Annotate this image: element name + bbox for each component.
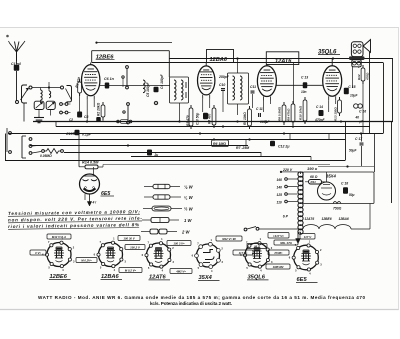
voltage box left of socket 1 [30, 250, 46, 255]
svg-text:12AT6: 12AT6 [275, 58, 292, 64]
svg-text:C 18: C 18 [341, 182, 348, 186]
legend resistor 1/4 W [144, 195, 194, 200]
capacitor C4 [154, 73, 165, 104]
resistor R8 [278, 102, 286, 125]
voltage box socket 5 top [247, 244, 267, 249]
coil L4 [143, 80, 150, 97]
svg-text:C 14: C 14 [316, 105, 323, 109]
wire bus 3 [8, 133, 383, 135]
note handwritten text [8, 209, 143, 229]
svg-text:C 17: C 17 [355, 137, 363, 141]
svg-text:110: 110 [277, 200, 282, 204]
capacitor C2 on bus [69, 117, 132, 123]
voltage box socket 3 top [167, 241, 191, 246]
svg-text:C5 100pF: C5 100pF [146, 81, 150, 97]
svg-text:100,2 V: 100,2 V [130, 245, 141, 249]
capacitor C15 [344, 85, 359, 98]
tube V2 12BA6 [198, 63, 215, 113]
resistor R15 [40, 149, 63, 159]
wire output B+ [383, 63, 385, 134]
tube socket 12AT6 [142, 237, 175, 273]
svg-text:R12: R12 [357, 74, 361, 80]
svg-text:kc/s. Potenza indicativa di us: kc/s. Potenza indicativa di uscita 2 wat… [150, 301, 232, 306]
svg-text:C2: C2 [69, 118, 73, 122]
resistor R13 [334, 97, 342, 121]
svg-text:68 Ω: 68 Ω [310, 175, 318, 179]
wire inter-bus verticals [246, 134, 329, 162]
resistor R4 [208, 105, 216, 128]
svg-text:12AT6: 12AT6 [305, 217, 315, 221]
IF transformer T2 [228, 59, 249, 116]
svg-text:10M≈M2: 10M≈M2 [273, 265, 284, 269]
rectifier box [303, 172, 374, 204]
capacitor C12 [270, 141, 290, 149]
variable capacitor section CV1 [34, 101, 44, 115]
svg-text:C8: C8 [84, 115, 88, 119]
svg-text:R14 0.5M: R14 0.5M [82, 161, 99, 165]
svg-text:1 W: 1 W [184, 218, 192, 223]
ground [34, 116, 44, 123]
label socket 35X4 [198, 275, 220, 281]
antenna coupling bracket left [21, 85, 33, 122]
wire rectifier B+ [392, 59, 394, 122]
svg-text:160: 160 [277, 178, 283, 182]
resistor R2 [97, 102, 105, 122]
svg-text:0.05MΩ: 0.05MΩ [40, 154, 52, 158]
antenna coil L1 [41, 88, 43, 104]
svg-text:117 V: 117 V [304, 235, 313, 239]
svg-text:10n: 10n [301, 90, 307, 94]
svg-text:¼ W: ¼ W [184, 195, 194, 200]
svg-text:M12 V≈0-A: M12 V≈0-A [52, 235, 66, 239]
variable capacitor section CV2 [46, 101, 55, 115]
power transformer primary [280, 168, 303, 235]
resistor R3 [186, 105, 193, 129]
svg-text:R2 20kΩ: R2 20kΩ [97, 102, 101, 116]
resistor R1 [75, 77, 82, 112]
svg-text:750Ω: 750Ω [333, 207, 342, 211]
svg-text:12BE6: 12BE6 [322, 217, 332, 221]
svg-text:6 P: 6 P [283, 214, 289, 218]
output transformer T3 [349, 56, 365, 88]
wire bus 7 [131, 156, 311, 158]
wire V1 plate to IF1 [100, 85, 170, 87]
capacitor C13 coupling [276, 63, 322, 105]
heater string wire [303, 204, 370, 230]
svg-text:470Ω: 470Ω [365, 72, 369, 81]
terminal circles to switch [60, 103, 71, 114]
svg-text:C 15: C 15 [348, 85, 355, 89]
resistor R12 [357, 65, 370, 134]
svg-text:WATT RADIO - Mod. ANIE WR 6. G: WATT RADIO - Mod. ANIE WR 6. Gamma onde … [38, 295, 365, 300]
voltage box socket 1 right [76, 258, 97, 263]
svg-text:R8 0.5MΩ: R8 0.5MΩ [278, 106, 282, 121]
tube V4 35QL6 [323, 59, 342, 113]
voltage box socket 3 bottom [170, 269, 192, 274]
svg-text:0.1μF: 0.1μF [82, 133, 92, 137]
capacitor C18 [341, 182, 355, 198]
resistor R10 [299, 97, 307, 124]
svg-text:125: 125 [277, 193, 283, 197]
voltage box socket 4 top [216, 236, 242, 241]
svg-text:M4L 47Ω: M4L 47Ω [280, 241, 292, 245]
voltage box mains right [300, 234, 315, 240]
svg-text:C10 50p: C10 50p [196, 113, 200, 125]
svg-text:R6 1MΩ: R6 1MΩ [213, 142, 226, 146]
resistor R11 [305, 175, 325, 184]
label 190 ohm [307, 165, 374, 171]
label 6E5 [101, 191, 115, 197]
legend resistor 1/2 W [143, 206, 194, 211]
svg-text:R3 470: R3 470 [186, 115, 190, 126]
svg-text:POM≈: POM≈ [275, 251, 283, 255]
power switch S2 [22, 136, 41, 158]
voltage box mains left [268, 233, 289, 239]
svg-text:C4 100pF: C4 100pF [160, 73, 164, 89]
tube V1 12BE6 [82, 63, 100, 122]
voltage box socket 6 left [268, 250, 289, 255]
wire speaker return [369, 52, 371, 134]
svg-text:C10: C10 [219, 83, 225, 87]
tube socket 6E5 [289, 239, 322, 275]
wire chassis bus 1 [33, 121, 393, 123]
tube socket 12BA6 [94, 237, 127, 273]
screen rail wire [92, 62, 383, 64]
svg-text:100 3 V≈: 100 3 V≈ [173, 241, 185, 245]
legend resistor 1 W [142, 218, 192, 223]
tube 35X4 rectifier [318, 172, 336, 200]
label socket 12BE6 [49, 274, 71, 280]
svg-text:≈117 V≈: ≈117 V≈ [273, 234, 284, 238]
capacitor C14 [314, 105, 326, 122]
legend resistor 2 W [141, 229, 190, 234]
label socket 12AT6 [149, 275, 171, 281]
svg-text:C 16: C 16 [359, 110, 366, 114]
svg-text:R4 470: R4 470 [208, 113, 212, 124]
svg-text:R10 10kΩ: R10 10kΩ [299, 105, 303, 120]
svg-text:100 30 V: 100 30 V [123, 236, 135, 240]
capacitor C17 [349, 134, 364, 167]
svg-text:C11: C11 [250, 85, 256, 89]
svg-text:R5 10kΩ: R5 10kΩ [243, 112, 247, 125]
wire bus 5 [30, 145, 248, 147]
svg-text:12BA6: 12BA6 [339, 217, 349, 221]
svg-text:½ W: ½ W [184, 207, 194, 212]
capacitor C10a [218, 75, 230, 112]
coupling bracket right [61, 86, 72, 102]
label 35QL6 [318, 50, 340, 56]
svg-text:C 13: C 13 [301, 76, 308, 80]
svg-text:4 l: 4 l [92, 201, 97, 205]
voltage box socket 4 right [233, 250, 253, 255]
IF transformer T1 [170, 77, 189, 122]
resistor R7 label [236, 146, 249, 150]
band switch S1a [122, 66, 129, 89]
wire bus 8 bottom [5, 160, 345, 162]
capacitor C11 [250, 85, 256, 108]
junction dots on buses [73, 120, 362, 146]
wire 6E5 cathode arrow [85, 194, 96, 206]
svg-text:220 V: 220 V [282, 168, 293, 172]
label box 12AT6 [266, 52, 299, 65]
svg-text:M12 V≈ 98: M12 V≈ 98 [222, 237, 236, 241]
label box 12BA6 [207, 50, 234, 63]
phono input terminals [7, 128, 11, 153]
svg-text:190 u: 190 u [307, 166, 318, 171]
svg-text:R7 .25M: R7 .25M [236, 146, 249, 150]
svg-text:35X4: 35X4 [326, 174, 336, 179]
voltage box socket 1 top [47, 234, 71, 239]
wire coil top [32, 86, 61, 88]
svg-text:50μF: 50μF [349, 149, 357, 153]
tube socket 12BE6 [42, 237, 75, 273]
label box 12BE6 [92, 42, 172, 78]
wire bus 6 [64, 152, 261, 154]
svg-text:⅛ W: ⅛ W [184, 185, 194, 190]
svg-text:C6 1n: C6 1n [104, 77, 115, 81]
svg-text:2 W: 2 W [181, 230, 190, 235]
voltage box socket 5 right [274, 240, 298, 245]
voltage box socket 2 mid [125, 245, 145, 250]
mains switch [244, 227, 303, 231]
svg-text:117 V≈: 117 V≈ [239, 251, 248, 255]
capacitor C1 on antenna lead [11, 61, 21, 104]
label socket 35QL6 [247, 275, 269, 281]
resistor R9 [287, 101, 295, 125]
mains arrow [296, 233, 301, 244]
resistor R5 [243, 106, 251, 129]
wire left edge [5, 134, 7, 161]
band switch S1b [123, 103, 130, 124]
oscillator coil L2 [49, 82, 51, 98]
label socket 6E5 [296, 277, 318, 283]
svg-text:C12 2μ: C12 2μ [278, 145, 290, 149]
tube 6E5 magic eye [80, 167, 100, 194]
capacitor C10 blob [196, 113, 209, 125]
transformer taps [277, 178, 298, 205]
svg-text:M 0,2V≈: M 0,2V≈ [81, 258, 92, 262]
capacitor C8 [77, 112, 88, 120]
loudspeaker [351, 40, 370, 57]
label socket 12BA6 [101, 274, 123, 280]
wire bus right edge [346, 122, 392, 204]
capacitor C13b [66, 130, 92, 137]
svg-text:12BA6: 12BA6 [210, 57, 228, 63]
wire bus 2 [56, 126, 370, 128]
tube V3 12AT6 [257, 65, 276, 113]
capacitor C6 [104, 77, 115, 89]
wire bus 4 [60, 139, 345, 141]
svg-text:0 V≈: 0 V≈ [35, 251, 41, 255]
voltage box socket 2 top [118, 236, 140, 241]
svg-text:C13: C13 [66, 132, 73, 136]
svg-text:10μF: 10μF [350, 94, 358, 98]
svg-text:140: 140 [277, 185, 283, 189]
resistor R14 [79, 134, 330, 169]
tube socket 35QL6 [240, 237, 273, 273]
B+ rail wire [169, 57, 393, 59]
legend resistor 1/8 W [144, 184, 194, 189]
antenna [9, 41, 26, 61]
svg-text:4M2 V≈: 4M2 V≈ [175, 269, 186, 273]
capacitor C11b [256, 107, 271, 124]
svg-text:R13 150Ω: R13 150Ω [334, 107, 338, 121]
capacitor C16 electrolytic [354, 104, 367, 124]
voltage box socket 2 bottom [119, 268, 142, 273]
svg-text:R11: R11 [311, 180, 317, 184]
potentiometer R6 [212, 140, 229, 147]
svg-text:M 0,2 V≈: M 0,2 V≈ [125, 268, 137, 272]
label 750 ohm [333, 202, 342, 211]
svg-text:250pF: 250pF [218, 75, 230, 79]
svg-text:2μ: 2μ [154, 153, 159, 157]
capacitor on bus line [147, 150, 158, 158]
voltage box socket 6 bottom [266, 264, 290, 269]
svg-text:50μ: 50μ [349, 193, 355, 197]
tube socket 35X4 [192, 238, 224, 273]
svg-text:R9 47kΩ: R9 47kΩ [287, 108, 291, 121]
svg-text:C 11: C 11 [256, 107, 263, 111]
